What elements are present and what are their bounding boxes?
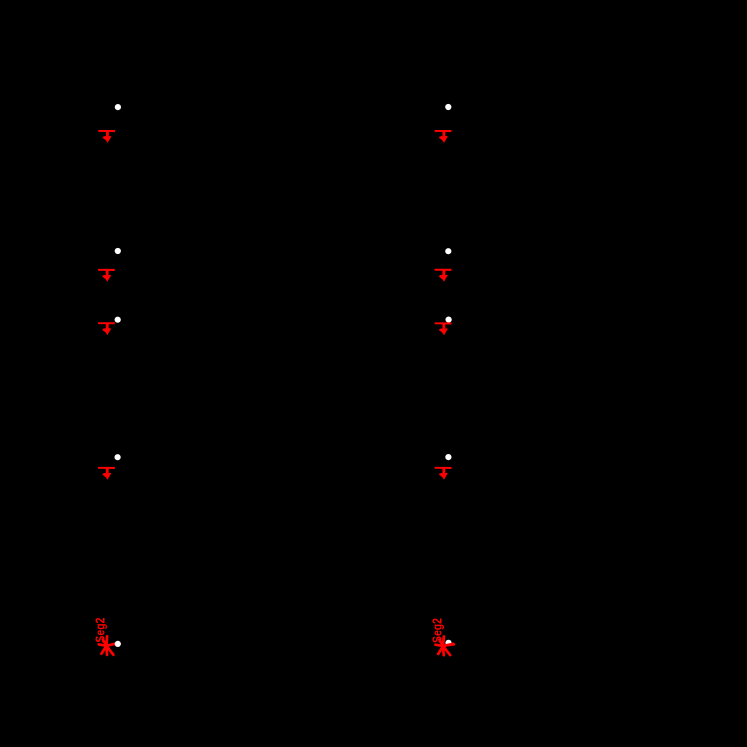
ground GND3 [98,269,115,282]
node N6 (junction dot, right row3) [446,317,452,323]
node N4 (junction dot, right row2) [445,248,451,254]
ground GND1 [98,130,115,143]
node N5 (junction dot, left row3) [115,317,121,323]
ground GND2 [435,130,452,143]
ground GND6 [435,322,452,335]
node N7 (junction dot, left row4) [115,454,121,460]
svg-text:Seg2: Seg2 [93,618,108,643]
node N10 (terminal dot at right Seg2 flag) [445,640,451,646]
node N3 (junction dot, left row2) [115,248,121,254]
net flag Seg2 (left): star marker [99,636,117,655]
node N1 (junction dot, net Seg-left row1) [115,104,121,110]
ground GND5 [98,322,115,335]
node N9 (terminal dot at left Seg2 flag) [115,641,121,647]
svg-text:Seg2: Seg2 [430,618,445,643]
net flag Seg2 (right): star marker drawn over node [436,637,455,656]
ground GND4 [435,269,452,282]
ground GND8 [435,467,452,480]
node N2 (junction dot, right row1) [445,104,451,110]
node N8 (junction dot, right row4) [445,454,451,460]
ground GND7 [98,467,115,480]
